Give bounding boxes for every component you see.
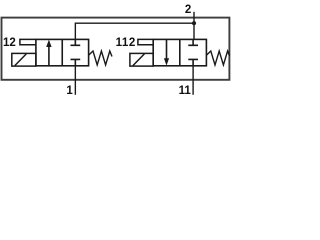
- valve V1 solenoid diagonal stroke: [15, 54, 26, 66]
- valve V2 flow arrow (down): [166, 39, 168, 59]
- svg-text:11: 11: [179, 85, 192, 97]
- wire: valve V1 top port up and across to junction: [75, 23, 194, 39]
- wire: node 2 vertical into junction and valve V2 top port: [193, 12, 195, 40]
- valve V2 return spring: [206, 51, 229, 65]
- valve V2 solenoid pilot flag: [138, 39, 153, 44]
- valve V2 blocked port T bottom: [188, 59, 198, 65]
- valve V1 position divider: [61, 39, 63, 65]
- valve V1 blocked port T top: [71, 39, 81, 45]
- valve V1 return spring: [89, 51, 112, 65]
- wire: valve V1 bottom port to node 1: [74, 66, 76, 95]
- valve V1 solenoid coil box: [12, 53, 36, 66]
- valve V2 body (two position squares): [153, 39, 206, 65]
- valve V2 blocked port T top: [188, 39, 198, 45]
- enclosure frame: [2, 18, 230, 80]
- valve V1 flow arrow (up): [48, 46, 50, 66]
- wire: valve V2 bottom port to node 11: [192, 66, 194, 95]
- svg-text:12: 12: [3, 37, 16, 49]
- valve V2 position divider: [179, 39, 181, 65]
- valve V1 solenoid pilot flag: [20, 39, 36, 44]
- valve V1 body (two position squares): [36, 39, 89, 65]
- valve V2 solenoid diagonal stroke: [133, 54, 145, 66]
- svg-text:2: 2: [185, 4, 191, 16]
- svg-text:112: 112: [116, 37, 136, 49]
- valve V1 blocked port T bottom: [71, 59, 81, 65]
- svg-text:1: 1: [66, 85, 73, 97]
- junction dot at node 2: [192, 21, 196, 25]
- valve V2 solenoid coil box: [130, 53, 153, 66]
